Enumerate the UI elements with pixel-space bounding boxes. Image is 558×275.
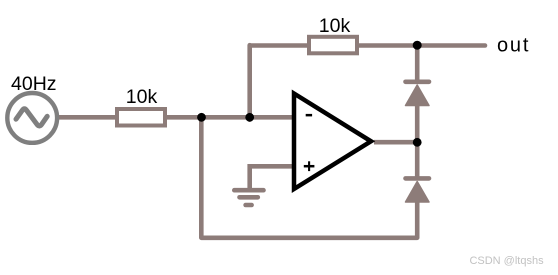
svg-text:10k: 10k [126, 86, 158, 108]
wire output node to D2 top [415, 142, 420, 177]
diode D1 cathode bar [406, 80, 430, 85]
wire R1 to op-amp minus input [165, 115, 293, 120]
svg-text:CSDN @ltqshs: CSDN @ltqshs [469, 255, 544, 267]
diode D1 triangle [406, 85, 430, 106]
node A junction dot [197, 113, 206, 122]
ground symbol [234, 190, 263, 205]
op-amp plus sign [304, 165, 315, 168]
op-amp U1 triangle [294, 94, 371, 190]
svg-text:out: out [497, 35, 530, 57]
AC source sine wave [16, 109, 47, 126]
wire node A down, bottom wire, up to diode D2 anode [201, 117, 417, 238]
node B junction dot [245, 113, 254, 122]
output node junction dot [413, 138, 422, 147]
wire R2 to out node [356, 43, 418, 48]
resistor R2 [309, 37, 357, 54]
wire plus input to ground [250, 166, 292, 188]
wire D1 bottom to output node [415, 104, 420, 144]
op-amp minus sign [306, 114, 312, 117]
svg-text:10k: 10k [319, 15, 351, 37]
AC source V1 circle [7, 93, 57, 143]
svg-text:40Hz: 40Hz [11, 73, 57, 95]
diode D2 triangle [406, 182, 430, 203]
wire source to R1 [56, 115, 117, 120]
wire D1 top to out node [415, 46, 420, 81]
wire out node to out terminal [417, 43, 485, 48]
diode D2 cathode bar [406, 176, 430, 181]
out node junction dot [413, 41, 422, 50]
wire node B up to feedback [247, 45, 252, 119]
wire op-amp output [374, 140, 417, 145]
top feedback wire to R2 [249, 43, 310, 48]
resistor R1 [117, 109, 165, 126]
